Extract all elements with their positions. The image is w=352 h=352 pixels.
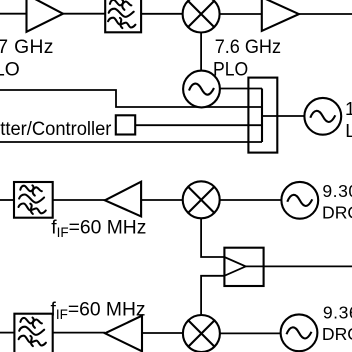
svg-text:9.368 GHz: 9.368 GHz <box>323 302 352 322</box>
svg-text:PLO: PLO <box>0 60 20 81</box>
svg-text:fIF=60 MHz: fIF=60 MHz <box>51 217 146 240</box>
svg-text:PLO: PLO <box>213 60 248 81</box>
svg-text:DRO: DRO <box>322 202 352 222</box>
svg-text:LO: LO <box>345 120 352 141</box>
svg-text:itter/Controller: itter/Controller <box>0 119 112 140</box>
svg-text:7.6 GHz: 7.6 GHz <box>215 37 281 58</box>
svg-text:fIF=60 MHz: fIF=60 MHz <box>51 299 146 322</box>
svg-text:7 GHz: 7 GHz <box>0 37 54 58</box>
svg-text:9.308 GHz: 9.308 GHz <box>322 181 352 201</box>
svg-text:14.8 GHz: 14.8 GHz <box>345 98 352 119</box>
svg-text:DRO: DRO <box>322 324 352 344</box>
